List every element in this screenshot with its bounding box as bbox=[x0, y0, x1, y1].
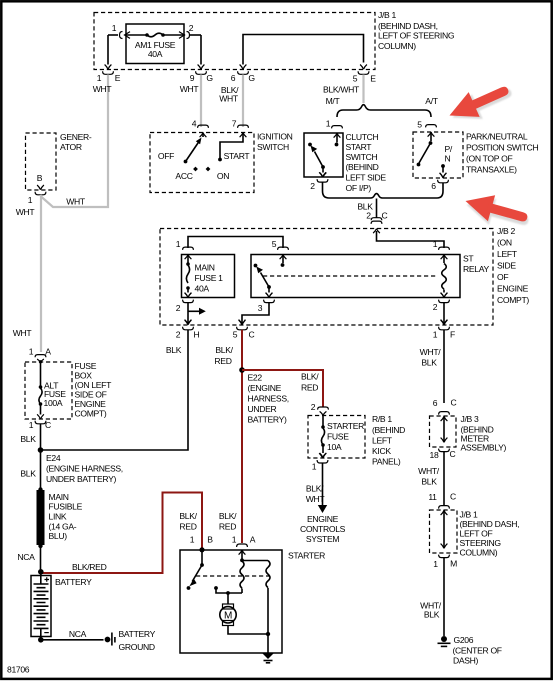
svg-text:5: 5 bbox=[417, 120, 422, 130]
svg-text:ENGINE: ENGINE bbox=[307, 514, 339, 524]
svg-text:WHT: WHT bbox=[16, 207, 36, 217]
ignition START contact bbox=[220, 133, 243, 159]
fuse AM1 FUSE 40A bbox=[108, 23, 201, 64]
svg-text:MAIN: MAIN bbox=[49, 492, 69, 502]
connector 5 C bbox=[233, 320, 255, 340]
svg-text:40A: 40A bbox=[148, 49, 163, 59]
svg-text:2: 2 bbox=[310, 181, 315, 191]
svg-text:BLK/WHT: BLK/WHT bbox=[323, 85, 360, 95]
wire: J/B2 internal feed main fuse 1 / relay pin 5 bbox=[188, 237, 283, 249]
svg-text:1: 1 bbox=[232, 535, 237, 545]
wire BLK E24 to fusible link bbox=[40, 450, 42, 489]
connector 1 C bbox=[29, 420, 51, 430]
svg-text:J/B 3: J/B 3 bbox=[461, 414, 479, 424]
svg-text:100A: 100A bbox=[44, 398, 63, 408]
battery bbox=[31, 569, 92, 643]
svg-text:(BEHIND DASH,: (BEHIND DASH, bbox=[378, 21, 438, 31]
svg-text:ENGINE: ENGINE bbox=[497, 284, 529, 294]
wire: J/B1 internal 6G up-over to 5E bbox=[243, 35, 364, 65]
svg-text:STARTER: STARTER bbox=[327, 421, 364, 431]
svg-text:M/T: M/T bbox=[326, 96, 341, 106]
wire relay 3 to connector C bbox=[242, 303, 269, 325]
park/neutral position switch bbox=[413, 120, 539, 192]
svg-text:1: 1 bbox=[326, 119, 331, 129]
svg-text:4: 4 bbox=[192, 119, 197, 129]
junction block J/B 2 bbox=[160, 226, 529, 325]
svg-text:11: 11 bbox=[428, 492, 437, 502]
svg-text:WHT: WHT bbox=[93, 84, 113, 94]
svg-text:18: 18 bbox=[430, 450, 439, 460]
svg-text:CONTROLS: CONTROLS bbox=[300, 524, 346, 534]
svg-text:LINK: LINK bbox=[49, 512, 67, 522]
wire + branch arrow from main fuse pin 2 to H bbox=[185, 303, 206, 325]
ignition contact ACC arm bbox=[184, 160, 188, 164]
fuse box (left side) bbox=[25, 361, 112, 419]
svg-text:1: 1 bbox=[29, 420, 34, 430]
svg-text:UNDER BATTERY): UNDER BATTERY) bbox=[46, 474, 116, 484]
svg-text:E22: E22 bbox=[248, 373, 263, 383]
svg-text:2: 2 bbox=[189, 23, 194, 33]
svg-text:B: B bbox=[207, 535, 213, 545]
junction block J/B 1 (top, behind dash) bbox=[94, 10, 455, 70]
svg-text:NCA: NCA bbox=[17, 552, 35, 562]
svg-text:C: C bbox=[249, 330, 255, 340]
wire NCA battery- to ground bbox=[41, 639, 104, 641]
svg-text:6: 6 bbox=[431, 181, 436, 191]
wire BLK/RED E22 to starter fuse 2 bbox=[242, 370, 323, 407]
svg-text:C: C bbox=[450, 449, 456, 459]
svg-text:(14 GA-: (14 GA- bbox=[49, 522, 77, 532]
wire relay 2 to connector F bbox=[443, 303, 445, 325]
generator bbox=[16, 132, 92, 217]
svg-text:1: 1 bbox=[190, 535, 195, 545]
svg-text:BATTERY): BATTERY) bbox=[248, 415, 288, 425]
svg-text:1: 1 bbox=[97, 73, 102, 83]
wire BLK fuse box to E24 bbox=[40, 424, 42, 450]
svg-text:WHT: WHT bbox=[219, 94, 239, 104]
svg-text:G206: G206 bbox=[454, 635, 474, 645]
svg-text:N: N bbox=[445, 154, 451, 164]
svg-text:G: G bbox=[206, 73, 213, 83]
svg-text:G: G bbox=[248, 73, 255, 83]
ground starter case bbox=[262, 653, 274, 663]
svg-text:BLK/: BLK/ bbox=[215, 345, 233, 355]
svg-text:GENER-: GENER- bbox=[60, 132, 92, 142]
connector 6 C bbox=[433, 398, 457, 415]
starter contact to motor bbox=[214, 586, 218, 590]
annotation arrow 1 (points to A/T pin 5) bbox=[444, 76, 517, 130]
svg-text:BLK: BLK bbox=[20, 434, 36, 444]
connector 6 G bbox=[231, 65, 256, 84]
svg-text:BLK: BLK bbox=[421, 477, 437, 487]
junction block J/B 1 (lower, behind dash) bbox=[430, 510, 520, 558]
starter hold-in coil bbox=[242, 560, 268, 562]
relay ST bbox=[251, 239, 489, 313]
svg-text:(ON: (ON bbox=[497, 238, 512, 248]
svg-text:WHT: WHT bbox=[180, 84, 200, 94]
svg-text:6: 6 bbox=[433, 398, 438, 408]
svg-text:STEERING: STEERING bbox=[460, 538, 502, 548]
connector 1 M bbox=[433, 555, 457, 569]
svg-text:2: 2 bbox=[176, 303, 181, 313]
annotation arrow 2 (points to BLK branch) bbox=[461, 188, 533, 235]
svg-text:2: 2 bbox=[433, 302, 438, 312]
connector 1 F bbox=[433, 320, 455, 340]
svg-text:C: C bbox=[382, 211, 388, 221]
svg-text:(ON LEFT: (ON LEFT bbox=[75, 380, 113, 390]
svg-text:HARNESS,: HARNESS, bbox=[248, 394, 289, 404]
svg-text:1: 1 bbox=[433, 559, 438, 569]
svg-text:ENGINE: ENGINE bbox=[75, 399, 107, 409]
svg-text:OF I/P): OF I/P) bbox=[346, 183, 372, 193]
svg-text:BLK/: BLK/ bbox=[179, 511, 197, 521]
svg-text:7: 7 bbox=[232, 119, 237, 129]
wire BLK/RED battery+ to starter B bbox=[41, 493, 202, 574]
starter pull-in coil bbox=[241, 550, 243, 559]
svg-text:J/B 1: J/B 1 bbox=[460, 510, 478, 520]
svg-text:A/T: A/T bbox=[425, 96, 438, 106]
connector 9 G bbox=[190, 65, 214, 84]
svg-text:COMPT): COMPT) bbox=[497, 295, 529, 305]
connector 1 A (starter) bbox=[237, 544, 248, 547]
svg-text:J/B 2: J/B 2 bbox=[497, 226, 515, 236]
connector 18 C bbox=[430, 449, 456, 460]
svg-text:WHT/: WHT/ bbox=[420, 347, 442, 357]
junction block J/B 3 bbox=[430, 414, 507, 453]
svg-text:BOX: BOX bbox=[75, 371, 93, 381]
svg-text:BLK/: BLK/ bbox=[219, 511, 237, 521]
wire WHT/BLK from F to 6C bbox=[443, 330, 445, 403]
svg-text:FUSE: FUSE bbox=[75, 361, 97, 371]
svg-text:BLK/RED: BLK/RED bbox=[72, 562, 107, 572]
svg-text:2: 2 bbox=[311, 402, 316, 412]
starter solenoid contacts bbox=[199, 547, 204, 552]
wire: J/B1 internal pin 9 drop bbox=[200, 35, 202, 65]
wire BLK/RED from C through E22 to starter A bbox=[241, 330, 243, 543]
svg-text:F: F bbox=[450, 330, 455, 340]
svg-text:LEFT SIDE: LEFT SIDE bbox=[346, 173, 387, 183]
svg-text:5: 5 bbox=[272, 239, 277, 249]
starter bbox=[179, 511, 325, 653]
svg-text:6: 6 bbox=[231, 73, 236, 83]
svg-text:SWITCH: SWITCH bbox=[257, 142, 289, 152]
svg-text:M: M bbox=[224, 611, 232, 622]
svg-text:SWITCH: SWITCH bbox=[346, 152, 378, 162]
svg-text:MAIN: MAIN bbox=[195, 263, 215, 273]
wire NCA link to battery bbox=[40, 546, 42, 572]
wire BLK/WHT branch M/T / A/T bbox=[326, 96, 439, 117]
svg-text:RED: RED bbox=[301, 383, 318, 393]
svg-text:BLK/: BLK/ bbox=[301, 372, 319, 382]
svg-text:R/B 1: R/B 1 bbox=[372, 414, 392, 424]
connector 1 E bbox=[97, 65, 121, 84]
svg-text:M: M bbox=[450, 559, 457, 569]
fusible link MAIN FUSIBLE LINK bbox=[37, 487, 83, 548]
connector 11 C bbox=[428, 492, 456, 509]
svg-text:OF: OF bbox=[497, 272, 508, 282]
svg-text:ASSEMBLY): ASSEMBLY) bbox=[461, 443, 507, 453]
svg-text:1: 1 bbox=[433, 330, 438, 340]
svg-text:B: B bbox=[37, 173, 43, 183]
svg-text:GROUND: GROUND bbox=[119, 642, 155, 652]
wire BLK from H to E24 bbox=[43, 330, 188, 450]
svg-text:RED: RED bbox=[219, 522, 236, 532]
svg-text:START: START bbox=[224, 151, 251, 161]
svg-text:(BEHIND: (BEHIND bbox=[346, 162, 379, 172]
relay coil bbox=[439, 247, 450, 259]
svg-text:(ENGINE: (ENGINE bbox=[248, 383, 282, 393]
svg-text:(ON TOP OF: (ON TOP OF bbox=[466, 154, 512, 164]
node ENGINE CONTROLS SYSTEM bbox=[300, 514, 346, 544]
svg-text:KICK: KICK bbox=[372, 446, 391, 456]
wire WHT/BLK M to G206 bbox=[443, 558, 445, 636]
wire BLK/WHT 5E down to M/T-A/T branch bbox=[362, 75, 364, 104]
fuse STARTER FUSE 10A in R/B 1 bbox=[308, 402, 405, 472]
wire: J/B2 internal 2C to relay coil pin 1 bbox=[377, 231, 445, 248]
wire: J/B1 internal pin 1 drop bbox=[107, 35, 109, 65]
svg-text:BLK/: BLK/ bbox=[306, 484, 324, 494]
svg-text:10A: 10A bbox=[327, 442, 342, 452]
svg-text:J/B 1: J/B 1 bbox=[378, 10, 396, 20]
svg-text:1: 1 bbox=[176, 239, 181, 249]
wire BLK/WHT 6G to ignition 7 bbox=[242, 75, 244, 128]
svg-text:BATTERY: BATTERY bbox=[55, 577, 92, 587]
svg-text:40A: 40A bbox=[195, 284, 210, 294]
svg-text:BLU): BLU) bbox=[49, 531, 68, 541]
svg-text:FUSE: FUSE bbox=[327, 432, 349, 442]
svg-text:3: 3 bbox=[258, 303, 263, 313]
svg-text:PANEL): PANEL) bbox=[372, 457, 401, 467]
motor M bbox=[223, 604, 234, 609]
svg-text:1: 1 bbox=[433, 239, 438, 249]
svg-text:A: A bbox=[250, 535, 256, 545]
ground G206 bbox=[438, 635, 502, 666]
wire WHT 9G to ignition 4 bbox=[200, 75, 202, 128]
svg-text:BATTERY: BATTERY bbox=[119, 629, 156, 639]
svg-text:LEFT OF STEERING: LEFT OF STEERING bbox=[378, 31, 455, 41]
svg-text:(BEHIND DASH,: (BEHIND DASH, bbox=[460, 519, 520, 529]
wire WHT from 1E to generator junction bbox=[41, 75, 108, 208]
svg-text:9: 9 bbox=[190, 73, 195, 83]
svg-text:(CENTER OF: (CENTER OF bbox=[453, 646, 502, 656]
svg-text:(BEHIND: (BEHIND bbox=[372, 425, 405, 435]
svg-text:STARTER: STARTER bbox=[288, 551, 325, 561]
svg-text:E: E bbox=[370, 74, 376, 84]
wire WHT generator B down left side bbox=[39, 195, 42, 352]
svg-text:A: A bbox=[45, 347, 51, 357]
svg-text:BLK: BLK bbox=[421, 358, 437, 368]
svg-text:ATOR: ATOR bbox=[60, 142, 82, 152]
svg-text:C: C bbox=[450, 492, 456, 502]
svg-text:WHT: WHT bbox=[306, 494, 326, 504]
svg-text:ST: ST bbox=[463, 254, 474, 264]
svg-text:CLUTCH: CLUTCH bbox=[346, 132, 379, 142]
wire BLK: clutch 2 / PN 6 joined branch to 2C bbox=[323, 182, 444, 233]
ground battery (body ground) bbox=[105, 629, 156, 652]
svg-text:SIDE OF: SIDE OF bbox=[75, 390, 107, 400]
svg-text:BLK: BLK bbox=[166, 345, 182, 355]
svg-text:OFF: OFF bbox=[158, 151, 174, 161]
svg-text:PARK/NEUTRAL: PARK/NEUTRAL bbox=[466, 132, 528, 142]
svg-text:E: E bbox=[115, 73, 121, 83]
svg-text:TRANSAXLE): TRANSAXLE) bbox=[466, 165, 517, 175]
svg-text:DASH): DASH) bbox=[453, 656, 479, 666]
svg-text:5: 5 bbox=[233, 330, 238, 340]
clutch start switch bbox=[304, 119, 386, 194]
svg-text:C: C bbox=[45, 420, 51, 430]
svg-text:FUSIBLE: FUSIBLE bbox=[49, 502, 83, 512]
svg-text:FUSE 1: FUSE 1 bbox=[195, 273, 224, 283]
svg-text:1: 1 bbox=[29, 347, 34, 357]
fuse ALT FUSE 100A bbox=[37, 360, 66, 419]
svg-text:2: 2 bbox=[366, 211, 371, 221]
svg-text:COLUMN): COLUMN) bbox=[378, 41, 416, 51]
svg-text:WHT/: WHT/ bbox=[418, 466, 440, 476]
connector 5 E bbox=[353, 65, 377, 84]
svg-text:COMPT): COMPT) bbox=[75, 409, 107, 419]
ignition switch bbox=[150, 119, 293, 193]
svg-text:WHT: WHT bbox=[66, 197, 86, 207]
svg-text:WHT: WHT bbox=[13, 328, 33, 338]
fuse MAIN FUSE 1 40A bbox=[176, 239, 235, 313]
svg-text:BLK: BLK bbox=[20, 469, 36, 479]
svg-text:81706: 81706 bbox=[7, 665, 30, 675]
svg-text:SIDE: SIDE bbox=[497, 261, 516, 271]
connector 1 A (top of fuse box) bbox=[29, 347, 52, 363]
svg-text:SYSTEM: SYSTEM bbox=[306, 534, 340, 544]
svg-text:UNDER: UNDER bbox=[248, 404, 277, 414]
wire BLK/WHT to engine controls system bbox=[306, 463, 327, 513]
svg-text:1: 1 bbox=[28, 195, 33, 205]
svg-text:C: C bbox=[451, 398, 457, 408]
svg-text:ON: ON bbox=[217, 171, 229, 181]
svg-text:E24: E24 bbox=[46, 453, 61, 463]
junction E24 bbox=[38, 447, 123, 484]
svg-text:RELAY: RELAY bbox=[463, 264, 489, 274]
svg-text:(ENGINE HARNESS,: (ENGINE HARNESS, bbox=[46, 464, 123, 474]
svg-text:LEFT: LEFT bbox=[372, 436, 393, 446]
svg-text:NCA: NCA bbox=[69, 629, 87, 639]
svg-text:RED: RED bbox=[214, 356, 231, 366]
svg-text:5: 5 bbox=[353, 74, 358, 84]
svg-text:IGNITION: IGNITION bbox=[257, 132, 293, 142]
svg-text:START: START bbox=[346, 142, 373, 152]
connector 2 H bbox=[176, 320, 200, 340]
svg-text:H: H bbox=[194, 330, 200, 340]
junction E22 bbox=[239, 367, 289, 424]
svg-text:2: 2 bbox=[176, 330, 181, 340]
svg-text:P/: P/ bbox=[445, 144, 453, 154]
svg-text:LEFT: LEFT bbox=[497, 249, 518, 259]
svg-text:1: 1 bbox=[312, 462, 317, 472]
svg-text:LEFT OF: LEFT OF bbox=[460, 529, 493, 539]
svg-text:ACC: ACC bbox=[175, 171, 192, 181]
wire WHT/BLK 18C to 11C bbox=[443, 452, 445, 502]
svg-text:BLK: BLK bbox=[424, 610, 440, 620]
svg-text:RED: RED bbox=[179, 522, 196, 532]
svg-text:1: 1 bbox=[112, 23, 117, 33]
svg-text:POSITION SWITCH: POSITION SWITCH bbox=[466, 143, 539, 153]
svg-text:COLUMN): COLUMN) bbox=[460, 548, 498, 558]
